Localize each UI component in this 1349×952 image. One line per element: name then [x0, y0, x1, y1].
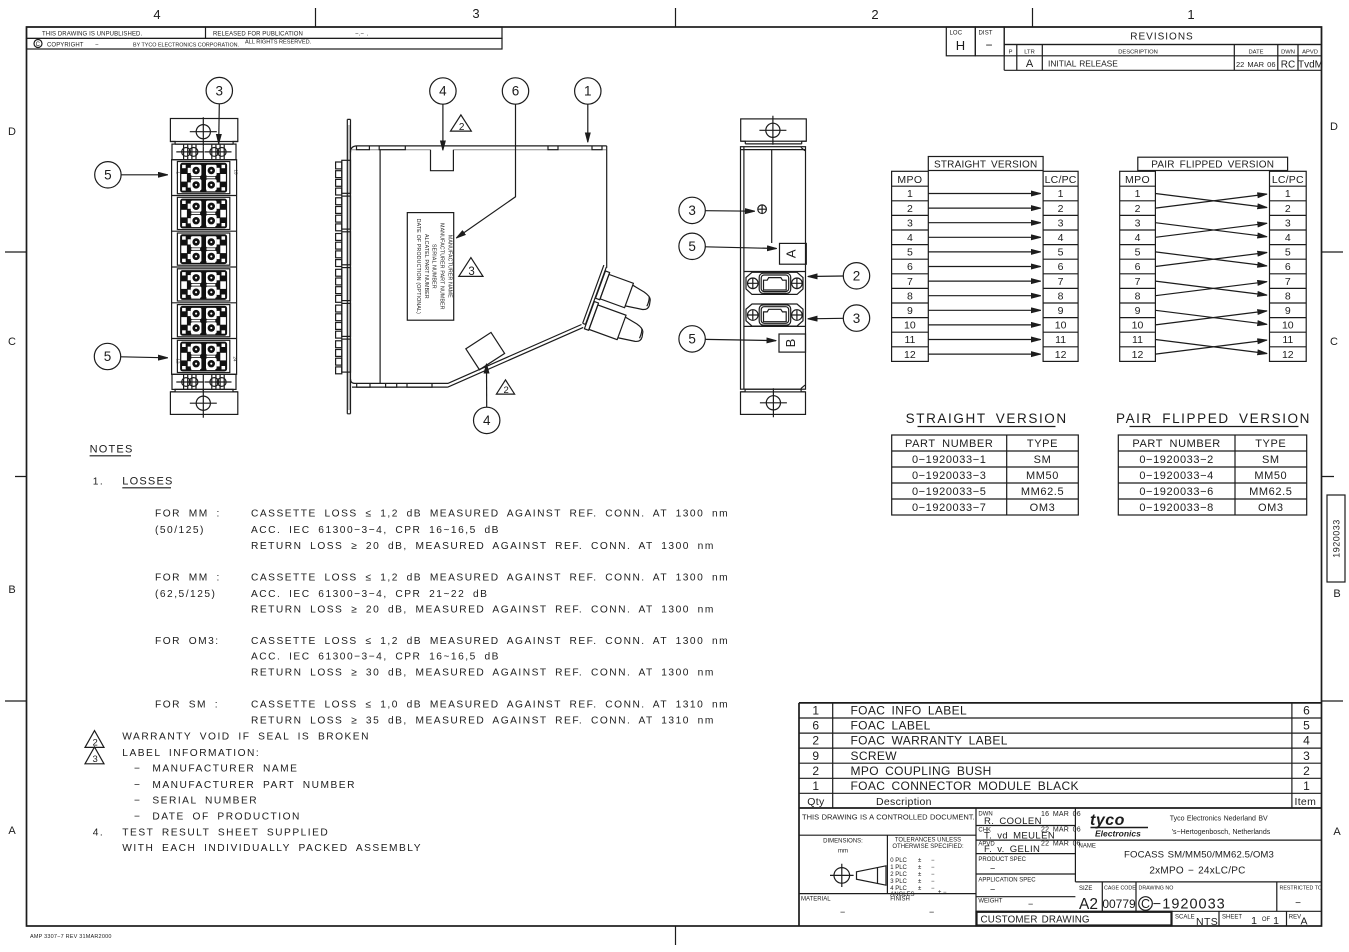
- svg-text:8: 8: [1285, 290, 1291, 302]
- svg-text:−: −: [95, 43, 99, 49]
- top screw strip: [172, 144, 236, 160]
- svg-text:C: C: [1141, 897, 1150, 911]
- label B box: [779, 334, 806, 352]
- svg-text:OTHERWISE SPECIFIED:: OTHERWISE SPECIFIED:: [892, 844, 964, 850]
- svg-text:9: 9: [1135, 305, 1141, 317]
- svg-text:2: 2: [1303, 764, 1310, 778]
- note triangle 3: [85, 747, 104, 764]
- svg-text:TOLERANCES UNLESS: TOLERANCES UNLESS: [895, 838, 961, 844]
- svg-text:22 MAR 06: 22 MAR 06: [1236, 60, 1276, 69]
- bottom mounting flange: [170, 392, 237, 415]
- svg-text:LOC: LOC: [950, 31, 963, 37]
- svg-text:12: 12: [1282, 349, 1294, 361]
- svg-text:0−1920033−2: 0−1920033−2: [1139, 454, 1214, 466]
- svg-text:Description: Description: [876, 796, 932, 808]
- svg-text:F. v. GELIN: F. v. GELIN: [984, 844, 1040, 855]
- rear view (right): [679, 116, 870, 418]
- svg-text:6: 6: [1135, 261, 1141, 273]
- screw: [758, 205, 767, 214]
- svg-text:mm: mm: [838, 849, 848, 855]
- svg-text:−.− .: −.− .: [355, 32, 369, 38]
- svg-text:−: −: [931, 872, 935, 878]
- top flange crosshair: [759, 116, 786, 145]
- svg-text:PART NUMBER: PART NUMBER: [1132, 438, 1220, 450]
- screw left: [176, 145, 203, 160]
- svg-text:3: 3: [907, 217, 913, 229]
- screw left: [176, 375, 203, 390]
- MPO connector A: [596, 271, 610, 300]
- svg-text:3: 3: [688, 203, 696, 218]
- part number table straight version: [892, 411, 1079, 515]
- LC adapter row 3: [177, 233, 229, 265]
- top mounting flange: [741, 119, 807, 141]
- svg-text:6: 6: [907, 261, 913, 273]
- svg-text:'s−Hertogenbosch, Netherlands: 's−Hertogenbosch, Netherlands: [1172, 829, 1271, 836]
- svg-text:LABEL INFORMATION:: LABEL INFORMATION:: [122, 748, 260, 759]
- svg-text:3: 3: [216, 83, 224, 98]
- svg-text:−: −: [1028, 899, 1033, 909]
- svg-text:MM50: MM50: [1026, 470, 1059, 482]
- svg-text:2: 2: [1135, 203, 1141, 215]
- center line: [771, 150, 773, 243]
- svg-text:LTR: LTR: [1024, 49, 1035, 55]
- balloon 3 right: [843, 305, 869, 331]
- top mounting flange: [170, 119, 237, 142]
- svg-text:4: 4: [1058, 232, 1064, 244]
- svg-text:1.: 1.: [93, 477, 105, 488]
- bush zone lines: [744, 272, 806, 327]
- svg-text:5: 5: [104, 168, 112, 183]
- svg-text:STRAIGHT VERSION: STRAIGHT VERSION: [934, 159, 1037, 170]
- label A box: [780, 243, 807, 264]
- svg-text:11: 11: [1132, 334, 1143, 346]
- svg-text:2: 2: [1058, 203, 1064, 215]
- MPO coupling bush 2: [746, 304, 803, 326]
- svg-text:B: B: [8, 584, 15, 596]
- LC adapter row 6: [177, 340, 229, 372]
- svg-text:0−1920033−4: 0−1920033−4: [1139, 470, 1214, 482]
- svg-text:A2: A2: [1079, 896, 1098, 913]
- svg-text:RELEASED FOR PUBLICATION: RELEASED FOR PUBLICATION: [213, 32, 303, 38]
- zone ticks left: [5, 252, 27, 701]
- svg-text:A: A: [1333, 826, 1341, 838]
- svg-text:6: 6: [512, 84, 520, 99]
- svg-text:−: −: [134, 763, 141, 774]
- balloon 2: [843, 263, 869, 289]
- svg-text:TYPE: TYPE: [1255, 438, 1286, 450]
- warning triangle 2 bottom: [496, 380, 514, 394]
- svg-text:2: 2: [93, 737, 98, 748]
- wiring diagram straight version: [892, 157, 1079, 362]
- svg-text:NOTES: NOTES: [90, 444, 134, 456]
- svg-text:FOR MM :: FOR MM :: [155, 572, 221, 583]
- svg-text:PAIR FLIPPED VERSION: PAIR FLIPPED VERSION: [1116, 411, 1311, 426]
- svg-text:SERIAL NUMBER: SERIAL NUMBER: [431, 244, 437, 289]
- svg-text:1: 1: [907, 188, 913, 200]
- svg-text:APVD: APVD: [1302, 49, 1318, 55]
- module body: [741, 147, 806, 390]
- svg-text:5: 5: [1058, 247, 1064, 259]
- svg-text:3: 3: [472, 6, 479, 21]
- svg-text:1: 1: [1273, 915, 1279, 927]
- inner wall line: [379, 150, 381, 384]
- balloon 6: [502, 78, 528, 104]
- balloon 5 upper: [95, 162, 121, 188]
- svg-text:Qty: Qty: [807, 796, 825, 808]
- svg-text:B: B: [1333, 588, 1340, 600]
- tyco logo: [1090, 812, 1148, 839]
- svg-text:SHEET: SHEET: [1222, 914, 1242, 920]
- main dividers: [976, 808, 1075, 926]
- svg-text:A: A: [1300, 916, 1307, 928]
- svg-text:5: 5: [688, 239, 696, 254]
- svg-text:7: 7: [1058, 276, 1064, 288]
- balloon 3: [206, 77, 232, 103]
- svg-text:22 MAR 06: 22 MAR 06: [1041, 827, 1081, 834]
- MPO connector B: [584, 302, 598, 331]
- warranty seal tab top: [431, 150, 454, 171]
- part number table pair flipped version: [1116, 411, 1311, 515]
- svg-text:D: D: [1330, 121, 1338, 133]
- zone ticks bottom: [675, 926, 677, 945]
- svg-text:2: 2: [853, 269, 861, 284]
- svg-text:3: 3: [1303, 749, 1310, 763]
- svg-text:9: 9: [812, 749, 819, 763]
- svg-text:THIS DRAWING IS UNPUBLISHED.: THIS DRAWING IS UNPUBLISHED.: [42, 32, 142, 38]
- svg-text:ALL RIGHTS RESERVED.: ALL RIGHTS RESERVED.: [245, 39, 312, 45]
- balloon 4 bottom: [474, 407, 500, 433]
- svg-text:REV: REV: [1289, 914, 1301, 920]
- svg-text:3: 3: [1285, 217, 1291, 229]
- svg-text:MM62.5: MM62.5: [1021, 486, 1064, 498]
- svg-text:Item: Item: [1295, 796, 1317, 808]
- svg-text:−: −: [134, 780, 141, 791]
- svg-text:−: −: [931, 865, 935, 871]
- svg-text:1: 1: [1187, 7, 1194, 22]
- svg-text:WEIGHT: WEIGHT: [978, 899, 1002, 905]
- microfilm label box right edge: [1327, 495, 1345, 582]
- svg-text:SM: SM: [1034, 454, 1052, 466]
- svg-text:OM3: OM3: [1030, 502, 1056, 514]
- svg-text:ALCATEL PART NUMBER: ALCATEL PART NUMBER: [423, 234, 429, 299]
- LC adapter row 1: [177, 162, 229, 194]
- balloon 4 top: [430, 78, 456, 104]
- right edge: [606, 146, 608, 268]
- svg-text:12: 12: [176, 359, 181, 365]
- svg-text:CASSETTE LOSS ≤ 1,2 dB MEASURE: CASSETTE LOSS ≤ 1,2 dB MEASURED AGAINST …: [251, 572, 729, 583]
- svg-text:6: 6: [1058, 261, 1064, 273]
- svg-text:7: 7: [1135, 276, 1141, 288]
- svg-text:PAIR FLIPPED VERSION: PAIR FLIPPED VERSION: [1151, 160, 1274, 171]
- svg-text:2: 2: [1285, 203, 1291, 215]
- svg-text:ACC. IEC 61300−3−4, CPR 21~22: ACC. IEC 61300−3−4, CPR 21~22 dB: [251, 589, 488, 600]
- svg-text:OM3: OM3: [1258, 502, 1284, 514]
- svg-text:SIZE: SIZE: [1079, 886, 1092, 892]
- bottom mounting flange: [741, 392, 806, 415]
- svg-text:6: 6: [1285, 261, 1291, 273]
- svg-text:DATE OF PRODUCTION: DATE OF PRODUCTION: [152, 812, 301, 823]
- scale / sheet / rev row: [1172, 911, 1287, 926]
- svg-text:00779: 00779: [1102, 897, 1136, 911]
- svg-text:FOR SM :: FOR SM :: [155, 700, 219, 711]
- balloon 3 left: [679, 197, 705, 223]
- svg-text:B: B: [783, 339, 798, 348]
- svg-text:MANUFACTURER NAME: MANUFACTURER NAME: [446, 235, 452, 298]
- svg-text:2: 2: [812, 764, 819, 778]
- angled face plate: [583, 265, 607, 324]
- svg-text:2xMPO − 24xLC/PC: 2xMPO − 24xLC/PC: [1149, 866, 1245, 877]
- svg-text:0−1920033−3: 0−1920033−3: [912, 470, 987, 482]
- svg-text:1: 1: [1251, 915, 1257, 927]
- top view (middle): [336, 78, 661, 434]
- svg-text:3: 3: [1058, 217, 1064, 229]
- svg-text:DESCRIPTION: DESCRIPTION: [1118, 49, 1158, 55]
- svg-text:SCREW: SCREW: [851, 749, 898, 763]
- svg-text:MPO: MPO: [897, 174, 922, 186]
- svg-text:SCALE: SCALE: [1175, 914, 1195, 920]
- svg-text:6: 6: [812, 719, 819, 733]
- screw right: [205, 145, 232, 160]
- svg-text:LC/PC: LC/PC: [1045, 174, 1077, 186]
- warning triangle 2 top: [451, 115, 472, 131]
- svg-text:9: 9: [907, 305, 913, 317]
- svg-text:3: 3: [93, 754, 98, 765]
- svg-text:11: 11: [1055, 334, 1066, 346]
- svg-text:MANUFACTURER PART NUMBER: MANUFACTURER PART NUMBER: [152, 780, 356, 791]
- svg-text:A: A: [8, 825, 16, 837]
- svg-text:NAME: NAME: [1079, 844, 1096, 850]
- svg-text:FOAC LABEL: FOAC LABEL: [851, 719, 931, 733]
- MPO connectors exiting angled face: [581, 265, 661, 348]
- LC connector stubs: [336, 162, 342, 374]
- svg-text:1: 1: [1303, 779, 1310, 793]
- svg-text:COPYRIGHT: COPYRIGHT: [47, 43, 84, 49]
- svg-text:6: 6: [1303, 704, 1310, 718]
- svg-text:7: 7: [1285, 276, 1291, 288]
- svg-text:AMP 3307−7 REV 31MAR2000: AMP 3307−7 REV 31MAR2000: [30, 934, 112, 940]
- size / cage / drawing no row: [1075, 882, 1321, 911]
- copyright block top-left: [27, 27, 503, 49]
- front panel edge-on: [347, 119, 350, 413]
- balloon 1: [575, 78, 601, 104]
- LC adapter row 4: [177, 269, 229, 301]
- svg-text:LOSSES: LOSSES: [122, 476, 173, 488]
- svg-text:C: C: [36, 42, 41, 48]
- svg-text:MPO COUPLING BUSH: MPO COUPLING BUSH: [851, 764, 992, 778]
- MPO coupling bush 1: [746, 272, 803, 294]
- BOM table: [799, 703, 1322, 926]
- svg-text:TYPE: TYPE: [1027, 438, 1058, 450]
- svg-text:2 PLC: 2 PLC: [890, 872, 907, 878]
- svg-text:−: −: [134, 812, 141, 823]
- svg-text:RETURN LOSS ≥ 30 dB, MEASURED: RETURN LOSS ≥ 30 dB, MEASURED AGAINST RE…: [251, 667, 715, 678]
- svg-text:FOR OM3:: FOR OM3:: [155, 636, 220, 647]
- svg-text:TvdM: TvdM: [1298, 60, 1323, 71]
- screw right: [205, 375, 232, 390]
- svg-text:1: 1: [584, 84, 592, 99]
- svg-text:Electronics: Electronics: [1095, 829, 1141, 839]
- bottom flange screw crosshair: [190, 389, 217, 418]
- svg-text:CAGE CODE: CAGE CODE: [1104, 885, 1136, 891]
- svg-text:MANUFACTURER PART NUMBER: MANUFACTURER PART NUMBER: [439, 223, 445, 310]
- svg-text:−: −: [840, 907, 845, 917]
- svg-text:−: −: [134, 796, 141, 807]
- wiring diagram pair flipped version: [1120, 157, 1307, 361]
- svg-text:0−1920033−6: 0−1920033−6: [1139, 486, 1214, 498]
- svg-text:APPLICATION SPEC: APPLICATION SPEC: [978, 878, 1036, 884]
- svg-text:2: 2: [907, 203, 913, 215]
- svg-text:24: 24: [233, 357, 238, 363]
- svg-text:MPO: MPO: [1125, 174, 1150, 186]
- LC adapters edge-on column: [342, 160, 351, 372]
- svg-text:FOAC CONNECTOR MODULE BLACK: FOAC CONNECTOR MODULE BLACK: [851, 779, 1079, 793]
- svg-text:4: 4: [1303, 734, 1310, 748]
- svg-text:1: 1: [1285, 188, 1291, 200]
- svg-text:8: 8: [1135, 290, 1141, 302]
- svg-text:4: 4: [439, 84, 447, 99]
- top flange screw crosshair: [190, 117, 217, 146]
- svg-text:TEST RESULT SHEET SUPPLIED: TEST RESULT SHEET SUPPLIED: [122, 828, 329, 839]
- svg-text:10: 10: [904, 320, 916, 332]
- svg-text:FOAC INFO LABEL: FOAC INFO LABEL: [851, 704, 967, 718]
- svg-text:11: 11: [904, 334, 915, 346]
- svg-text:STRAIGHT VERSION: STRAIGHT VERSION: [906, 411, 1068, 426]
- projection symbol: [834, 868, 850, 884]
- svg-text:LC/PC: LC/PC: [1272, 174, 1304, 186]
- svg-text:DWN: DWN: [1281, 49, 1295, 55]
- svg-text:R. COOLEN: R. COOLEN: [984, 816, 1042, 827]
- front view (left): [94, 77, 238, 417]
- seal tab on diagonal: [466, 332, 505, 369]
- svg-text:CASSETTE LOSS ≤ 1,2 dB MEASURE: CASSETTE LOSS ≤ 1,2 dB MEASURED AGAINST …: [251, 636, 729, 647]
- svg-text:10: 10: [1132, 320, 1144, 332]
- module body: [172, 160, 237, 375]
- svg-text:−: −: [1295, 898, 1301, 909]
- svg-text:CASSETTE LOSS ≤ 1,2 dB MEASURE: CASSETTE LOSS ≤ 1,2 dB MEASURED AGAINST …: [251, 509, 729, 520]
- svg-text:D: D: [8, 126, 16, 138]
- cassette top rail: [351, 146, 607, 153]
- svg-text:ACC. IEC 61300−3−4, CPR 16~16,: ACC. IEC 61300−3−4, CPR 16~16,5 dB: [251, 652, 500, 663]
- balloon 5 upper: [679, 233, 705, 259]
- svg-text:DIST: DIST: [979, 31, 993, 37]
- svg-text:CUSTOMER DRAWING: CUSTOMER DRAWING: [981, 914, 1090, 925]
- svg-text:C: C: [1330, 336, 1338, 348]
- svg-text:10: 10: [1055, 320, 1067, 332]
- svg-text:0−1920033−7: 0−1920033−7: [912, 502, 987, 514]
- svg-text:CASSETTE LOSS ≤ 1,0 dB MEASURE: CASSETTE LOSS ≤ 1,0 dB MEASURED AGAINST …: [251, 700, 729, 711]
- svg-text:−: −: [990, 864, 995, 874]
- svg-text:12: 12: [1055, 349, 1067, 361]
- svg-text:PART NUMBER: PART NUMBER: [905, 438, 993, 450]
- svg-text:−: −: [931, 879, 935, 885]
- svg-text:FOCASS SM/MM50/MM62.5/OM3: FOCASS SM/MM50/MM62.5/OM3: [1124, 850, 1274, 861]
- svg-text:12: 12: [904, 349, 916, 361]
- middle column rows: [976, 826, 1322, 912]
- svg-text:0−1920033−8: 0−1920033−8: [1139, 502, 1214, 514]
- balloon 5 lower: [94, 343, 120, 369]
- svg-text:8: 8: [907, 290, 913, 302]
- balloon 5 lower: [679, 326, 705, 352]
- notes: [85, 444, 729, 855]
- warning triangle 3: [459, 258, 483, 277]
- svg-text:H: H: [956, 38, 965, 53]
- svg-text:MM50: MM50: [1254, 470, 1287, 482]
- svg-text:22 MAR 06: 22 MAR 06: [1041, 841, 1081, 848]
- svg-text:16 MAR 06: 16 MAR 06: [1041, 811, 1081, 818]
- svg-text:DATE OF PRODUCTION (OPTIONAL): DATE OF PRODUCTION (OPTIONAL): [415, 219, 421, 314]
- svg-text:5: 5: [1135, 247, 1141, 259]
- svg-text:5: 5: [688, 332, 696, 347]
- svg-text:5: 5: [1285, 247, 1291, 259]
- zone ticks top: [316, 8, 1033, 27]
- svg-text:13: 13: [234, 170, 239, 176]
- svg-text:9: 9: [1058, 305, 1064, 317]
- svg-text:1: 1: [812, 779, 819, 793]
- svg-text:DATE: DATE: [1248, 49, 1263, 55]
- svg-text:4.: 4.: [93, 828, 105, 839]
- svg-text:−: −: [985, 38, 992, 52]
- svg-text:9: 9: [1285, 305, 1291, 317]
- material / finish: [799, 893, 976, 895]
- svg-text:OF: OF: [1262, 917, 1271, 923]
- svg-text:RC: RC: [1281, 60, 1295, 71]
- svg-text:A: A: [1026, 58, 1034, 70]
- svg-text:11: 11: [1282, 334, 1293, 346]
- svg-text:3: 3: [853, 311, 861, 326]
- svg-text:1: 1: [1058, 188, 1064, 200]
- svg-text:−: −: [931, 886, 935, 892]
- svg-text:RETURN LOSS ≥ 20 dB, MEASURED: RETURN LOSS ≥ 20 dB, MEASURED AGAINST RE…: [251, 605, 715, 616]
- zone ticks right: [1322, 252, 1344, 701]
- svg-text:3: 3: [468, 266, 474, 278]
- svg-text:BY TYCO ELECTRONICS CORPORATIO: BY TYCO ELECTRONICS CORPORATION.: [133, 43, 239, 49]
- svg-text:2: 2: [459, 122, 465, 133]
- svg-text:NTS: NTS: [1196, 916, 1218, 928]
- svg-text:Tyco Electronics Nederland BV: Tyco Electronics Nederland BV: [1170, 816, 1268, 823]
- svg-text:5: 5: [1303, 719, 1310, 733]
- svg-text:(62,5/125): (62,5/125): [155, 589, 216, 600]
- svg-text:WITH EACH INDIVIDUALLY PACKED: WITH EACH INDIVIDUALLY PACKED ASSEMBLY: [122, 843, 422, 854]
- svg-text:3 PLC: 3 PLC: [890, 879, 907, 885]
- svg-text:−: −: [929, 907, 934, 917]
- svg-text:THIS DRAWING IS A CONTROLLED D: THIS DRAWING IS A CONTROLLED DOCUMENT.: [802, 813, 975, 822]
- svg-text:1: 1: [812, 704, 819, 718]
- LC adapter row 2: [177, 197, 229, 229]
- svg-text:RETURN LOSS ≥ 20 dB, MEASURED: RETURN LOSS ≥ 20 dB, MEASURED AGAINST RE…: [251, 541, 715, 552]
- svg-text:(50/125): (50/125): [155, 525, 205, 536]
- svg-text:FOR MM :: FOR MM :: [155, 509, 221, 520]
- svg-text:0 PLC: 0 PLC: [890, 858, 907, 864]
- bottom screw strip: [172, 374, 236, 389]
- customer drawing box: [977, 912, 1172, 926]
- svg-text:MATERIAL: MATERIAL: [801, 897, 831, 903]
- svg-text:4: 4: [1135, 232, 1141, 244]
- svg-text:FOAC WARRANTY LABEL: FOAC WARRANTY LABEL: [851, 734, 1008, 748]
- bottom flange crosshair: [760, 388, 787, 417]
- svg-text:ACC. IEC 61300−3−4, CPR 16~16,: ACC. IEC 61300−3−4, CPR 16~16,5 dB: [251, 525, 500, 536]
- svg-text:0−1920033−1: 0−1920033−1: [912, 454, 987, 466]
- svg-text:1920033: 1920033: [1332, 519, 1342, 558]
- svg-text:A: A: [784, 249, 799, 258]
- svg-text:5: 5: [104, 349, 112, 364]
- svg-text:4: 4: [153, 7, 160, 22]
- svg-text:PRODUCT SPEC: PRODUCT SPEC: [978, 857, 1026, 863]
- svg-text:4: 4: [483, 413, 491, 428]
- dimensions / tolerances: [886, 835, 888, 893]
- cassette bottom rail and diagonal: [351, 325, 584, 388]
- revisions block top-right: [946, 27, 1323, 71]
- svg-text:4: 4: [1285, 232, 1291, 244]
